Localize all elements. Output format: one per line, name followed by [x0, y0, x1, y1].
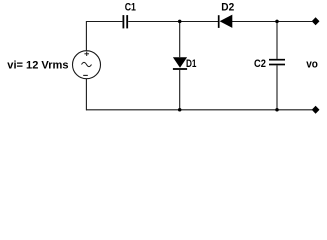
- svg-text:C1: C1: [125, 2, 136, 14]
- svg-text:C2: C2: [254, 58, 266, 70]
- svg-text:D2: D2: [221, 2, 234, 14]
- svg-text:vo: vo: [306, 58, 318, 70]
- svg-text:D1: D1: [186, 58, 197, 70]
- svg-text:vi= 12 Vrms: vi= 12 Vrms: [7, 59, 68, 71]
